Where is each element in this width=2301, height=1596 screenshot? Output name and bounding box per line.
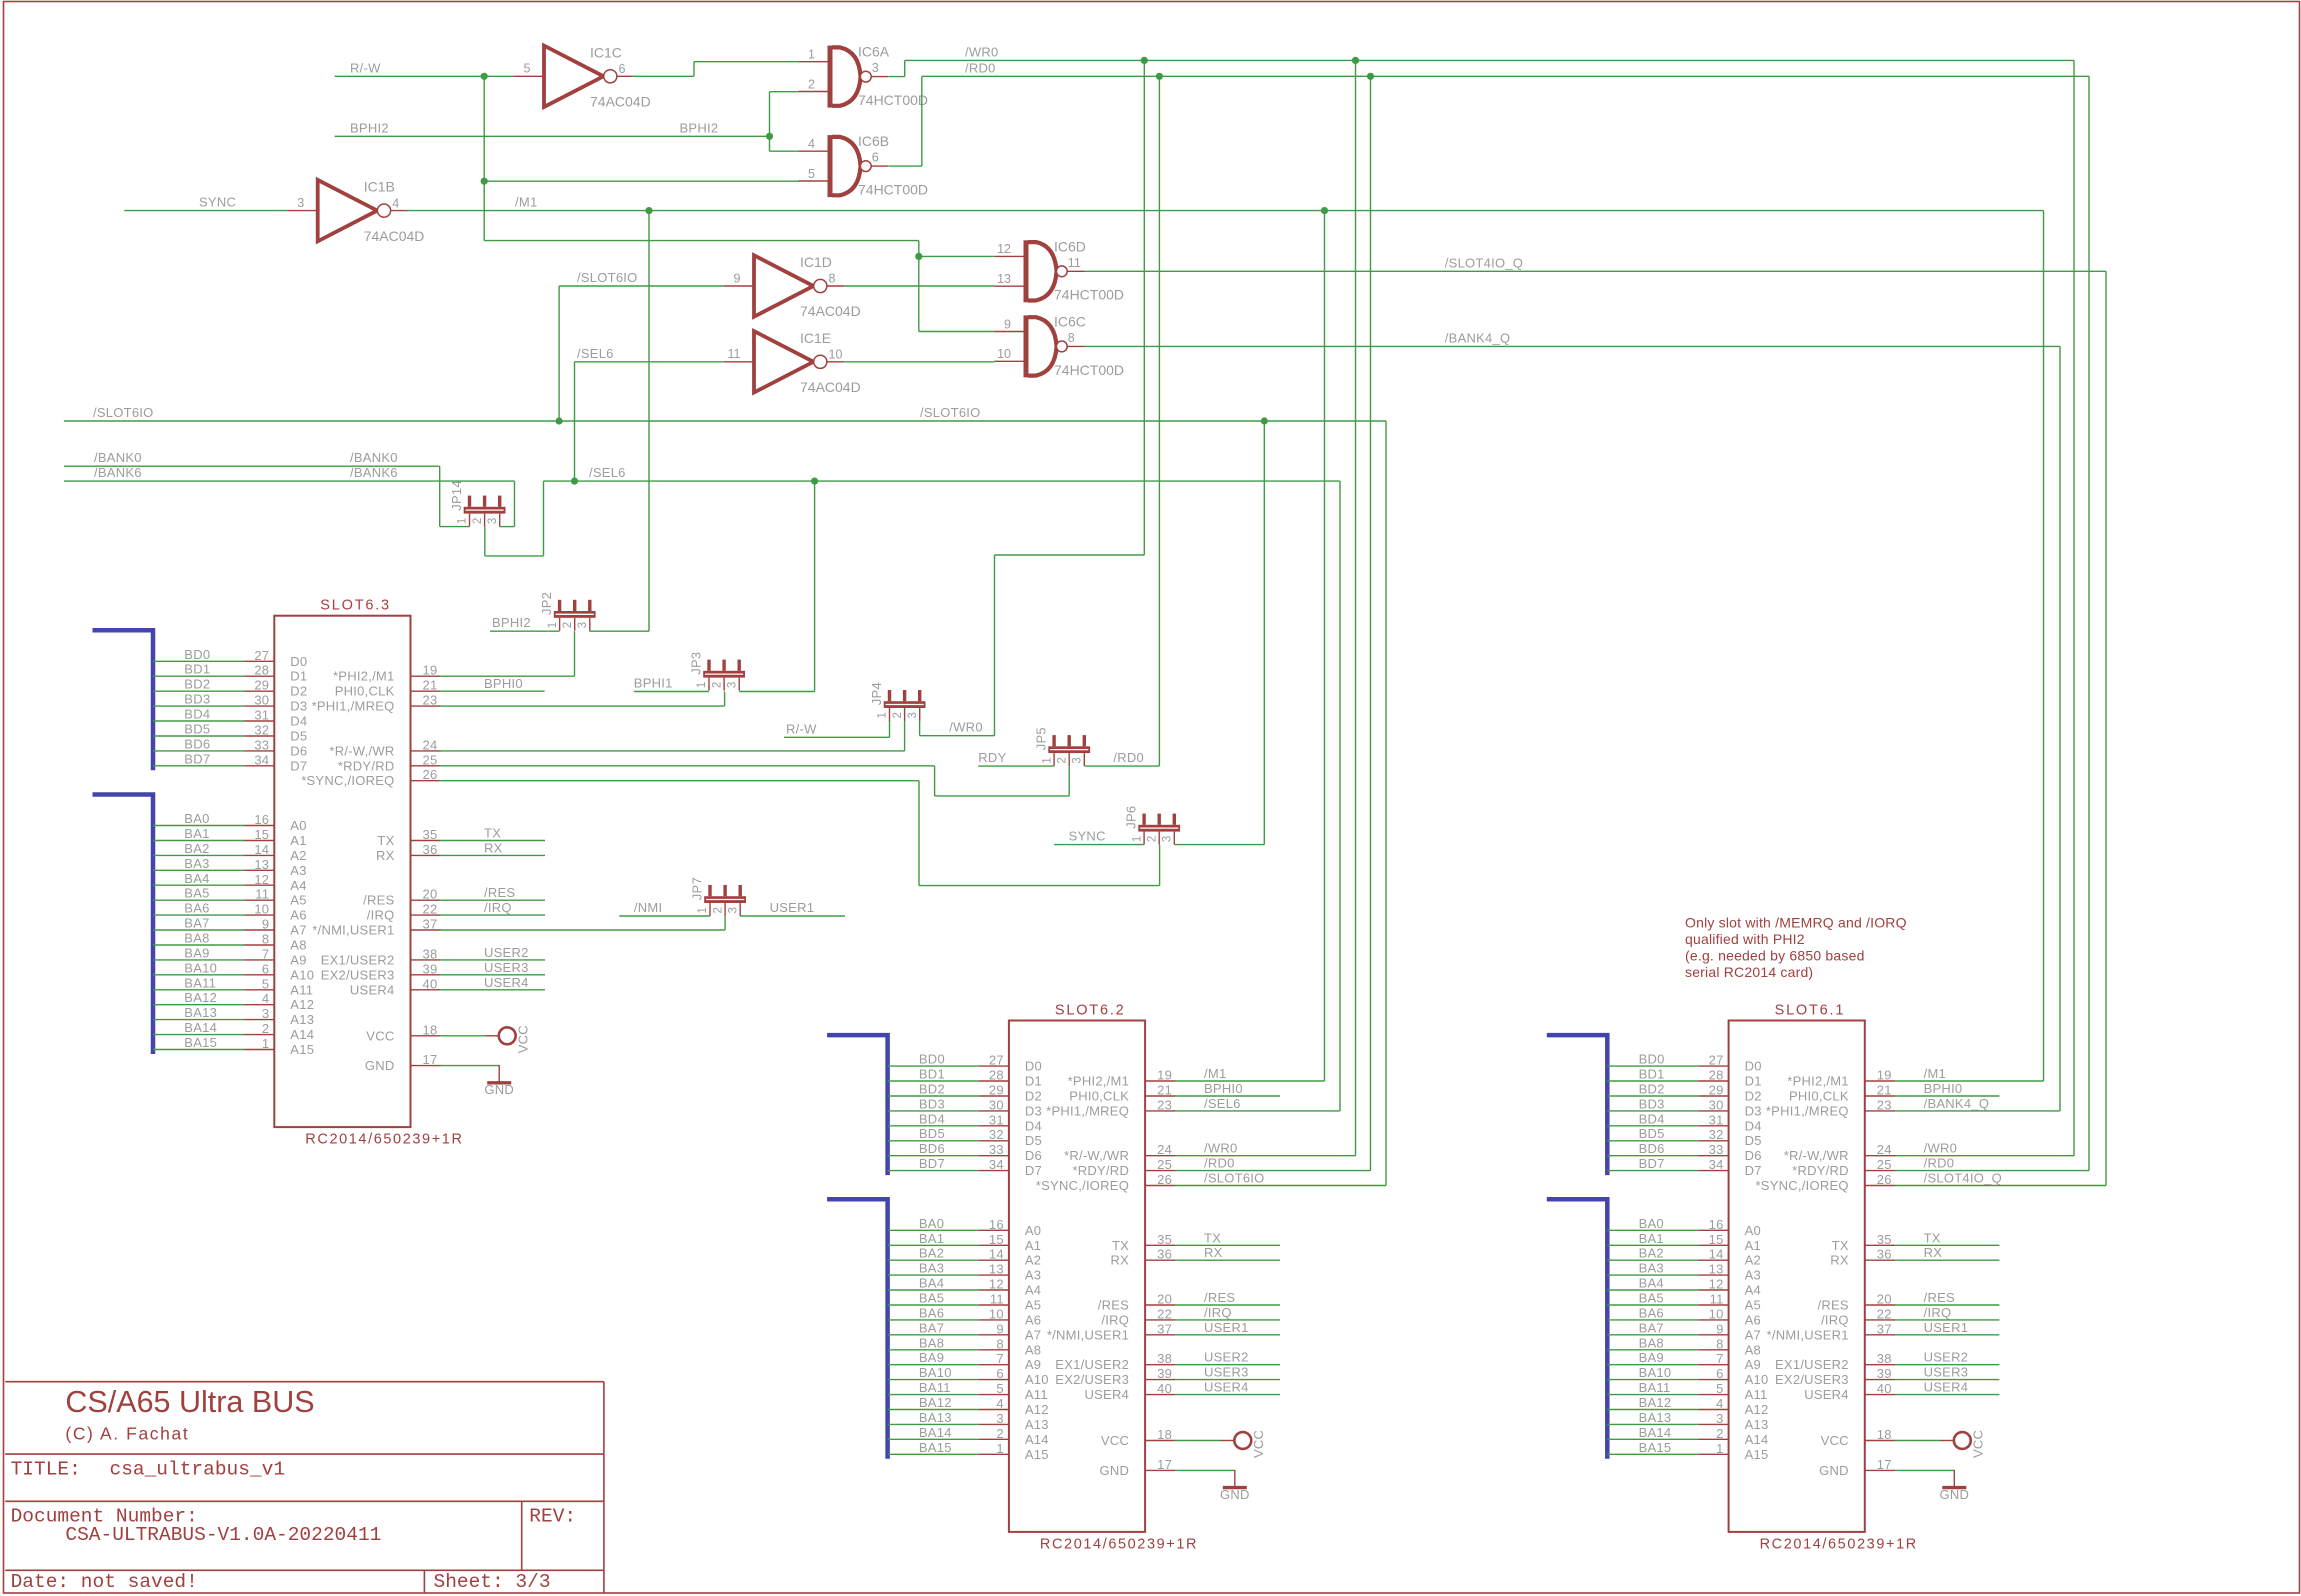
svg-text:19: 19	[1877, 1068, 1892, 1083]
svg-text:D3: D3	[1745, 1103, 1762, 1118]
ground symbol GND	[440, 1065, 515, 1097]
svg-text:VCC: VCC	[366, 1028, 394, 1043]
svg-text:VCC: VCC	[516, 1025, 531, 1053]
svg-text:BA1: BA1	[184, 826, 209, 841]
svg-text:30: 30	[989, 1097, 1004, 1112]
junction /SLOT6IO at IC1D riser	[556, 417, 563, 424]
svg-text:A12: A12	[290, 997, 314, 1012]
svg-text:A5: A5	[1745, 1298, 1761, 1313]
svg-text:27: 27	[254, 648, 269, 663]
svg-text:USER4: USER4	[1804, 1387, 1849, 1402]
svg-text:IC6C: IC6C	[1054, 313, 1086, 329]
svg-text:27: 27	[1709, 1053, 1724, 1068]
svg-text:BA1: BA1	[1639, 1231, 1664, 1246]
svg-text:5: 5	[1716, 1381, 1723, 1396]
svg-text:JP7: JP7	[690, 877, 705, 900]
svg-text:31: 31	[254, 708, 269, 723]
svg-text:23: 23	[1877, 1097, 1892, 1112]
svg-text:USER3: USER3	[484, 960, 529, 975]
svg-text:13: 13	[1709, 1262, 1724, 1277]
svg-text:27: 27	[989, 1053, 1004, 1068]
svg-text:*SYNC,/IOREQ: *SYNC,/IOREQ	[301, 773, 394, 788]
svg-text:BA1: BA1	[919, 1231, 944, 1246]
svg-text:BPHI2: BPHI2	[680, 120, 719, 135]
svg-text:BD7: BD7	[184, 751, 210, 766]
wire net R/-W	[335, 76, 995, 331]
svg-text:Sheet: 3/3: Sheet: 3/3	[434, 1571, 551, 1593]
svg-text:34: 34	[989, 1157, 1004, 1172]
svg-text:/RD0: /RD0	[1204, 1156, 1235, 1171]
svg-text:D1: D1	[290, 669, 307, 684]
svg-text:IC6A: IC6A	[858, 44, 890, 60]
svg-text:2: 2	[262, 1021, 269, 1036]
address bus BA0-BA15 at SLOT6.3	[93, 795, 154, 1055]
ground symbol GND	[1895, 1470, 1970, 1502]
svg-text:A8: A8	[1745, 1342, 1761, 1357]
svg-text:3: 3	[907, 712, 919, 718]
svg-text:20: 20	[1157, 1292, 1172, 1307]
svg-text:2: 2	[562, 622, 574, 628]
svg-text:74AC04D: 74AC04D	[590, 94, 651, 110]
svg-text:/WR0: /WR0	[1924, 1141, 1958, 1156]
svg-text:9: 9	[734, 271, 741, 285]
svg-text:USER1: USER1	[770, 900, 815, 915]
title block Date row	[11, 1571, 551, 1593]
svg-text:BD6: BD6	[1639, 1141, 1665, 1156]
svg-text:/SLOT4IO_Q: /SLOT4IO_Q	[1924, 1171, 2002, 1186]
svg-text:13: 13	[997, 272, 1011, 286]
bus wires BA0-BA15 to SLOT6.2	[888, 1216, 979, 1455]
wire net /BANK6	[64, 481, 515, 526]
svg-text:22: 22	[1877, 1306, 1892, 1321]
svg-text:74AC04D: 74AC04D	[800, 379, 861, 395]
svg-text:24: 24	[1877, 1142, 1892, 1157]
svg-text:BD3: BD3	[184, 692, 210, 707]
svg-text:34: 34	[254, 752, 269, 767]
svg-text:SYNC: SYNC	[1069, 829, 1106, 844]
svg-text:A5: A5	[290, 893, 306, 908]
svg-text:5: 5	[262, 976, 269, 991]
NAND gate IC6A (74HCT00D)	[798, 44, 928, 108]
svg-text:2: 2	[1716, 1426, 1723, 1441]
svg-text:/SLOT6IO: /SLOT6IO	[577, 270, 638, 285]
svg-text:TX: TX	[1112, 1238, 1129, 1253]
svg-text:USER2: USER2	[1204, 1350, 1249, 1365]
svg-text:RC2014/650239+1R: RC2014/650239+1R	[1040, 1536, 1198, 1552]
svg-text:31: 31	[1709, 1112, 1724, 1127]
svg-text:12: 12	[997, 242, 1011, 256]
svg-text:*R/-W,/WR: *R/-W,/WR	[1064, 1148, 1129, 1163]
svg-text:BD1: BD1	[919, 1067, 945, 1082]
svg-text:/BANK4_Q: /BANK4_Q	[1445, 330, 1511, 345]
svg-text:TX: TX	[377, 833, 394, 848]
svg-text:40: 40	[1157, 1381, 1172, 1396]
svg-text:EX1/USER2: EX1/USER2	[1775, 1357, 1849, 1372]
svg-text:74HCT00D: 74HCT00D	[1054, 287, 1124, 303]
svg-text:BD7: BD7	[919, 1156, 945, 1171]
svg-text:BD4: BD4	[1639, 1111, 1665, 1126]
svg-text:/RD0: /RD0	[965, 60, 996, 75]
wire RDY stub at JP5 pin1	[978, 765, 1054, 767]
svg-text:JP6: JP6	[1124, 806, 1139, 829]
svg-text:A9: A9	[1745, 1357, 1761, 1372]
svg-text:11: 11	[728, 347, 741, 361]
data bus BD0-BD7 at SLOT6.3	[93, 630, 154, 770]
svg-text:D5: D5	[1025, 1133, 1042, 1148]
svg-text:1: 1	[697, 907, 709, 913]
svg-text:8: 8	[829, 272, 836, 286]
svg-text:A13: A13	[1025, 1417, 1049, 1432]
svg-text:BA10: BA10	[184, 960, 217, 975]
svg-text:A7: A7	[1025, 1327, 1041, 1342]
svg-text:10: 10	[1709, 1306, 1724, 1321]
jumper JP3 (3-pin header)	[689, 652, 746, 691]
svg-text:BA6: BA6	[1639, 1305, 1664, 1320]
svg-text:15: 15	[989, 1232, 1004, 1247]
svg-text:GND: GND	[484, 1082, 514, 1097]
svg-text:22: 22	[423, 902, 438, 917]
svg-text:21: 21	[1877, 1083, 1892, 1098]
svg-text:1: 1	[808, 48, 815, 62]
svg-text:17: 17	[1877, 1457, 1892, 1472]
svg-text:1: 1	[877, 712, 889, 718]
svg-text:*/NMI,USER1: */NMI,USER1	[1767, 1327, 1849, 1342]
svg-text:USER4: USER4	[484, 975, 529, 990]
svg-text:35: 35	[1877, 1232, 1892, 1247]
svg-text:BD6: BD6	[919, 1141, 945, 1156]
svg-text:/BANK6: /BANK6	[350, 465, 398, 480]
svg-text:1: 1	[262, 1036, 269, 1051]
svg-text:CSA-ULTRABUS-V1.0A-20220411: CSA-ULTRABUS-V1.0A-20220411	[65, 1524, 381, 1546]
wire R/-W stub at JP4 pin1	[784, 721, 890, 737]
svg-text:BD1: BD1	[1639, 1067, 1665, 1082]
svg-text:VCC: VCC	[1101, 1433, 1129, 1448]
svg-text:JP14: JP14	[449, 480, 464, 511]
svg-text:(C) A. Fachat: (C) A. Fachat	[65, 1424, 189, 1444]
svg-text:BA2: BA2	[919, 1246, 944, 1261]
bus wires BD0-BD7 to SLOT6.1	[1607, 1052, 1698, 1172]
svg-text:D1: D1	[1745, 1074, 1762, 1089]
svg-text:TX: TX	[1924, 1230, 1941, 1245]
svg-text:7: 7	[1716, 1351, 1723, 1366]
svg-text:33: 33	[254, 737, 269, 752]
title block frame	[5, 1382, 604, 1593]
svg-text:D4: D4	[1025, 1118, 1042, 1133]
svg-text:BA0: BA0	[919, 1216, 944, 1231]
svg-text:*/NMI,USER1: */NMI,USER1	[1047, 1327, 1129, 1342]
wire USER1 stub at JP7 pin3	[740, 915, 845, 917]
svg-text:A5: A5	[1025, 1298, 1041, 1313]
junction /RD0 to SLOT6.2	[1367, 73, 1374, 80]
wire net /BANK4_Q	[1085, 346, 2061, 1111]
svg-text:5: 5	[996, 1381, 1003, 1396]
svg-text:10: 10	[997, 347, 1011, 361]
svg-text:19: 19	[1157, 1068, 1172, 1083]
svg-text:A0: A0	[290, 818, 306, 833]
svg-text:35: 35	[1157, 1232, 1172, 1247]
wire /RES stub SLOT6.3	[440, 899, 546, 901]
svg-text:6: 6	[1716, 1366, 1723, 1381]
svg-text:3: 3	[487, 518, 499, 524]
wire net SYNC (to IC1B)	[124, 210, 287, 212]
svg-text:/M1: /M1	[1924, 1066, 1946, 1081]
svg-text:/RES: /RES	[1098, 1298, 1129, 1313]
svg-text:40: 40	[423, 976, 438, 991]
svg-text:*PHI1,/MREQ: *PHI1,/MREQ	[1766, 1103, 1849, 1118]
svg-text:74AC04D: 74AC04D	[364, 228, 425, 244]
svg-text:/RD0: /RD0	[1924, 1156, 1955, 1171]
svg-text:A14: A14	[290, 1027, 314, 1042]
svg-text:2: 2	[472, 518, 484, 524]
data bus BD0-BD7 at SLOT6.1	[1547, 1035, 1608, 1175]
svg-text:/BANK0: /BANK0	[350, 450, 398, 465]
svg-text:4: 4	[262, 991, 269, 1006]
svg-text:BA3: BA3	[919, 1261, 944, 1276]
svg-text:SLOT6.1: SLOT6.1	[1775, 1003, 1846, 1019]
wire BPHI0 stub SLOT6.3 pin21	[440, 690, 545, 692]
inverter gate IC1E (74AC04D)	[724, 330, 861, 395]
svg-text:D1: D1	[1025, 1074, 1042, 1089]
wire net /M1	[406, 211, 2044, 1081]
svg-text:35: 35	[423, 827, 438, 842]
svg-text:EX2/USER3: EX2/USER3	[1055, 1372, 1129, 1387]
svg-text:29: 29	[989, 1083, 1004, 1098]
svg-text:A1: A1	[1025, 1238, 1041, 1253]
wire IC1E output to IC6C pin10	[844, 361, 994, 363]
svg-text:PHI0,CLK: PHI0,CLK	[1789, 1089, 1849, 1104]
junction /SEL6 at IC1E riser	[571, 478, 578, 485]
svg-text:(e.g. needed by 6850 based: (e.g. needed by 6850 based	[1685, 948, 1865, 964]
svg-text:EX2/USER3: EX2/USER3	[321, 967, 395, 982]
svg-text:/RES: /RES	[1924, 1290, 1955, 1305]
svg-text:*/NMI,USER1: */NMI,USER1	[312, 923, 394, 938]
svg-text:37: 37	[1877, 1321, 1892, 1336]
jumper JP4 (3-pin header)	[869, 682, 926, 721]
wire SLOT6.3 pin37 to JP7 pin2	[440, 916, 726, 930]
svg-text:BA9: BA9	[919, 1350, 944, 1365]
svg-text:/IRQ: /IRQ	[484, 900, 512, 915]
NAND gate IC6B (74HCT00D)	[798, 133, 928, 197]
jumper JP6 (3-pin header)	[1124, 806, 1181, 845]
svg-text:33: 33	[1709, 1142, 1724, 1157]
svg-text:A15: A15	[1025, 1447, 1049, 1462]
svg-text:/SEL6: /SEL6	[589, 465, 626, 480]
svg-text:A9: A9	[290, 952, 306, 967]
svg-text:/WR0: /WR0	[949, 720, 983, 735]
svg-text:SYNC: SYNC	[199, 195, 236, 210]
svg-text:20: 20	[1877, 1292, 1892, 1307]
svg-text:csa_ultrabus_v1: csa_ultrabus_v1	[110, 1459, 286, 1481]
svg-text:D4: D4	[1745, 1118, 1762, 1133]
svg-text:13: 13	[254, 857, 269, 872]
svg-text:A11: A11	[1745, 1387, 1768, 1402]
svg-text:/BANK4_Q: /BANK4_Q	[1924, 1096, 1990, 1111]
wire USER3 stub SLOT6.3	[440, 974, 546, 976]
svg-text:A2: A2	[1745, 1253, 1761, 1268]
svg-text:D6: D6	[1025, 1148, 1042, 1163]
svg-text:22: 22	[1157, 1306, 1172, 1321]
address bus BA0-BA15 at SLOT6.2	[827, 1199, 888, 1459]
svg-text:12: 12	[989, 1277, 1004, 1292]
svg-text:BPHI2: BPHI2	[492, 615, 531, 630]
svg-text:2: 2	[711, 682, 723, 688]
svg-text:32: 32	[1709, 1127, 1724, 1142]
svg-text:14: 14	[989, 1247, 1004, 1262]
svg-text:34: 34	[1709, 1157, 1724, 1172]
svg-text:9: 9	[262, 917, 269, 932]
svg-text:/SLOT4IO_Q: /SLOT4IO_Q	[1445, 255, 1523, 270]
svg-text:BA12: BA12	[919, 1395, 952, 1410]
svg-text:USER4: USER4	[1204, 1380, 1249, 1395]
svg-text:BA7: BA7	[919, 1320, 944, 1335]
svg-text:USER4: USER4	[350, 982, 395, 997]
svg-text:74HCT00D: 74HCT00D	[1054, 362, 1124, 378]
svg-text:BD5: BD5	[184, 722, 210, 737]
svg-text:A2: A2	[290, 848, 306, 863]
svg-text:BA7: BA7	[1639, 1320, 1664, 1335]
svg-text:BD3: BD3	[1639, 1096, 1665, 1111]
svg-text:RX: RX	[1830, 1253, 1849, 1268]
svg-text:16: 16	[1709, 1217, 1724, 1232]
wire net /SLOT4IO_Q	[1085, 271, 2107, 1185]
svg-text:A4: A4	[1745, 1283, 1761, 1298]
svg-text:IC1C: IC1C	[590, 44, 622, 60]
svg-text:3: 3	[996, 1411, 1003, 1426]
svg-text:A12: A12	[1745, 1402, 1769, 1417]
svg-text:IC6B: IC6B	[858, 133, 889, 149]
svg-text:A15: A15	[1745, 1447, 1769, 1462]
svg-text:qualified with PHI2: qualified with PHI2	[1685, 931, 1805, 947]
svg-text:2: 2	[996, 1426, 1003, 1441]
svg-text:D4: D4	[290, 714, 307, 729]
wire SLOT6.3 pin19 to JP2 pin2	[440, 631, 575, 676]
svg-text:RC2014/650239+1R: RC2014/650239+1R	[305, 1132, 463, 1148]
svg-text:USER2: USER2	[1924, 1350, 1969, 1365]
wire SYNC stub at JP6	[1054, 844, 1144, 846]
svg-text:3: 3	[577, 622, 589, 628]
power symbol VCC	[1175, 1430, 1266, 1458]
svg-text:33: 33	[989, 1142, 1004, 1157]
svg-text:25: 25	[1157, 1157, 1172, 1172]
svg-text:IC1E: IC1E	[800, 330, 831, 346]
svg-text:*PHI2,/M1: *PHI2,/M1	[1787, 1074, 1849, 1089]
svg-text:A7: A7	[1745, 1327, 1761, 1342]
svg-text:*PHI2,/M1: *PHI2,/M1	[333, 669, 395, 684]
bus wires BD0-BD7 to SLOT6.3	[153, 647, 244, 767]
svg-text:TX: TX	[1832, 1238, 1849, 1253]
svg-text:EX1/USER2: EX1/USER2	[321, 952, 395, 967]
wire label stubs SLOT6.2 right (TX RX /RES /IRQ USER1-4)	[1175, 1096, 1280, 1395]
svg-text:A2: A2	[1025, 1253, 1041, 1268]
svg-text:37: 37	[423, 917, 438, 932]
svg-text:A7: A7	[290, 923, 306, 938]
slot connector SLOT6.3 (RC2014/650239+1R)	[244, 598, 463, 1148]
svg-text:RDY: RDY	[978, 750, 1006, 765]
svg-text:24: 24	[1157, 1142, 1172, 1157]
svg-text:28: 28	[254, 663, 269, 678]
svg-text:37: 37	[1157, 1321, 1172, 1336]
svg-text:BA6: BA6	[184, 901, 209, 916]
junction /SLOT6IO at JP6 riser	[1261, 417, 1268, 424]
svg-text:16: 16	[989, 1217, 1004, 1232]
svg-text:D7: D7	[290, 758, 307, 773]
svg-text:BA7: BA7	[184, 916, 209, 931]
svg-text:BPHI1: BPHI1	[634, 676, 673, 691]
svg-text:BA2: BA2	[1639, 1246, 1664, 1261]
svg-text:A1: A1	[290, 833, 306, 848]
svg-text:3: 3	[727, 907, 739, 913]
svg-text:21: 21	[1157, 1083, 1172, 1098]
svg-text:Date: not saved!: Date: not saved!	[11, 1571, 198, 1593]
svg-text:74HCT00D: 74HCT00D	[858, 182, 928, 198]
svg-text:PHI0,CLK: PHI0,CLK	[335, 684, 395, 699]
svg-text:2: 2	[712, 907, 724, 913]
svg-text:4: 4	[392, 196, 399, 210]
svg-text:6: 6	[996, 1366, 1003, 1381]
svg-text:A13: A13	[290, 1012, 314, 1027]
svg-text:3: 3	[1716, 1411, 1723, 1426]
svg-text:GND: GND	[1819, 1463, 1849, 1478]
svg-text:*RDY/RD: *RDY/RD	[1792, 1163, 1849, 1178]
svg-text:25: 25	[423, 752, 438, 767]
svg-text:JP2: JP2	[539, 592, 554, 615]
svg-text:26: 26	[1877, 1172, 1892, 1187]
svg-text:*PHI1,/MREQ: *PHI1,/MREQ	[1046, 1103, 1129, 1118]
svg-text:BA8: BA8	[1639, 1335, 1664, 1350]
svg-text:BA9: BA9	[1639, 1350, 1664, 1365]
power symbol VCC	[1895, 1430, 1986, 1458]
svg-text:A14: A14	[1745, 1432, 1769, 1447]
svg-text:BD7: BD7	[1639, 1156, 1665, 1171]
svg-text:/SEL6: /SEL6	[577, 346, 614, 361]
title block TITLE row	[11, 1459, 285, 1481]
svg-text:10: 10	[989, 1306, 1004, 1321]
svg-text:30: 30	[254, 693, 269, 708]
svg-text:BA11: BA11	[919, 1380, 951, 1395]
svg-text:12: 12	[1709, 1277, 1724, 1292]
jumper JP14 (3-pin header)	[449, 480, 506, 526]
svg-text:11: 11	[255, 887, 269, 902]
svg-text:A6: A6	[1745, 1312, 1761, 1327]
svg-text:D6: D6	[290, 743, 307, 758]
svg-text:/IRQ: /IRQ	[1924, 1305, 1952, 1320]
svg-text:BD1: BD1	[184, 662, 210, 677]
svg-text:A15: A15	[290, 1042, 314, 1057]
svg-text:/RES: /RES	[484, 885, 515, 900]
svg-text:BA8: BA8	[919, 1335, 944, 1350]
svg-text:R/-W: R/-W	[350, 60, 381, 75]
svg-text:32: 32	[989, 1127, 1004, 1142]
svg-text:BA14: BA14	[184, 1020, 217, 1035]
inverter gate IC1C (74AC04D)	[514, 44, 651, 109]
svg-text:/WR0: /WR0	[965, 44, 999, 59]
svg-text:D5: D5	[290, 729, 307, 744]
svg-text:4: 4	[1716, 1396, 1723, 1411]
svg-text:BA10: BA10	[919, 1365, 952, 1380]
NAND gate IC6D (74HCT00D)	[994, 238, 1124, 302]
svg-text:/IRQ: /IRQ	[367, 908, 395, 923]
bus wires BD0-BD7 to SLOT6.2	[888, 1052, 979, 1172]
svg-text:RX: RX	[1111, 1253, 1130, 1268]
svg-text:A8: A8	[1025, 1342, 1041, 1357]
svg-text:BA4: BA4	[919, 1276, 944, 1291]
svg-text:4: 4	[996, 1396, 1003, 1411]
address bus BA0-BA15 at SLOT6.1	[1547, 1199, 1608, 1459]
svg-text:12: 12	[254, 872, 269, 887]
svg-text:2: 2	[808, 77, 815, 91]
svg-text:15: 15	[254, 827, 269, 842]
svg-text:PHI0,CLK: PHI0,CLK	[1069, 1089, 1129, 1104]
